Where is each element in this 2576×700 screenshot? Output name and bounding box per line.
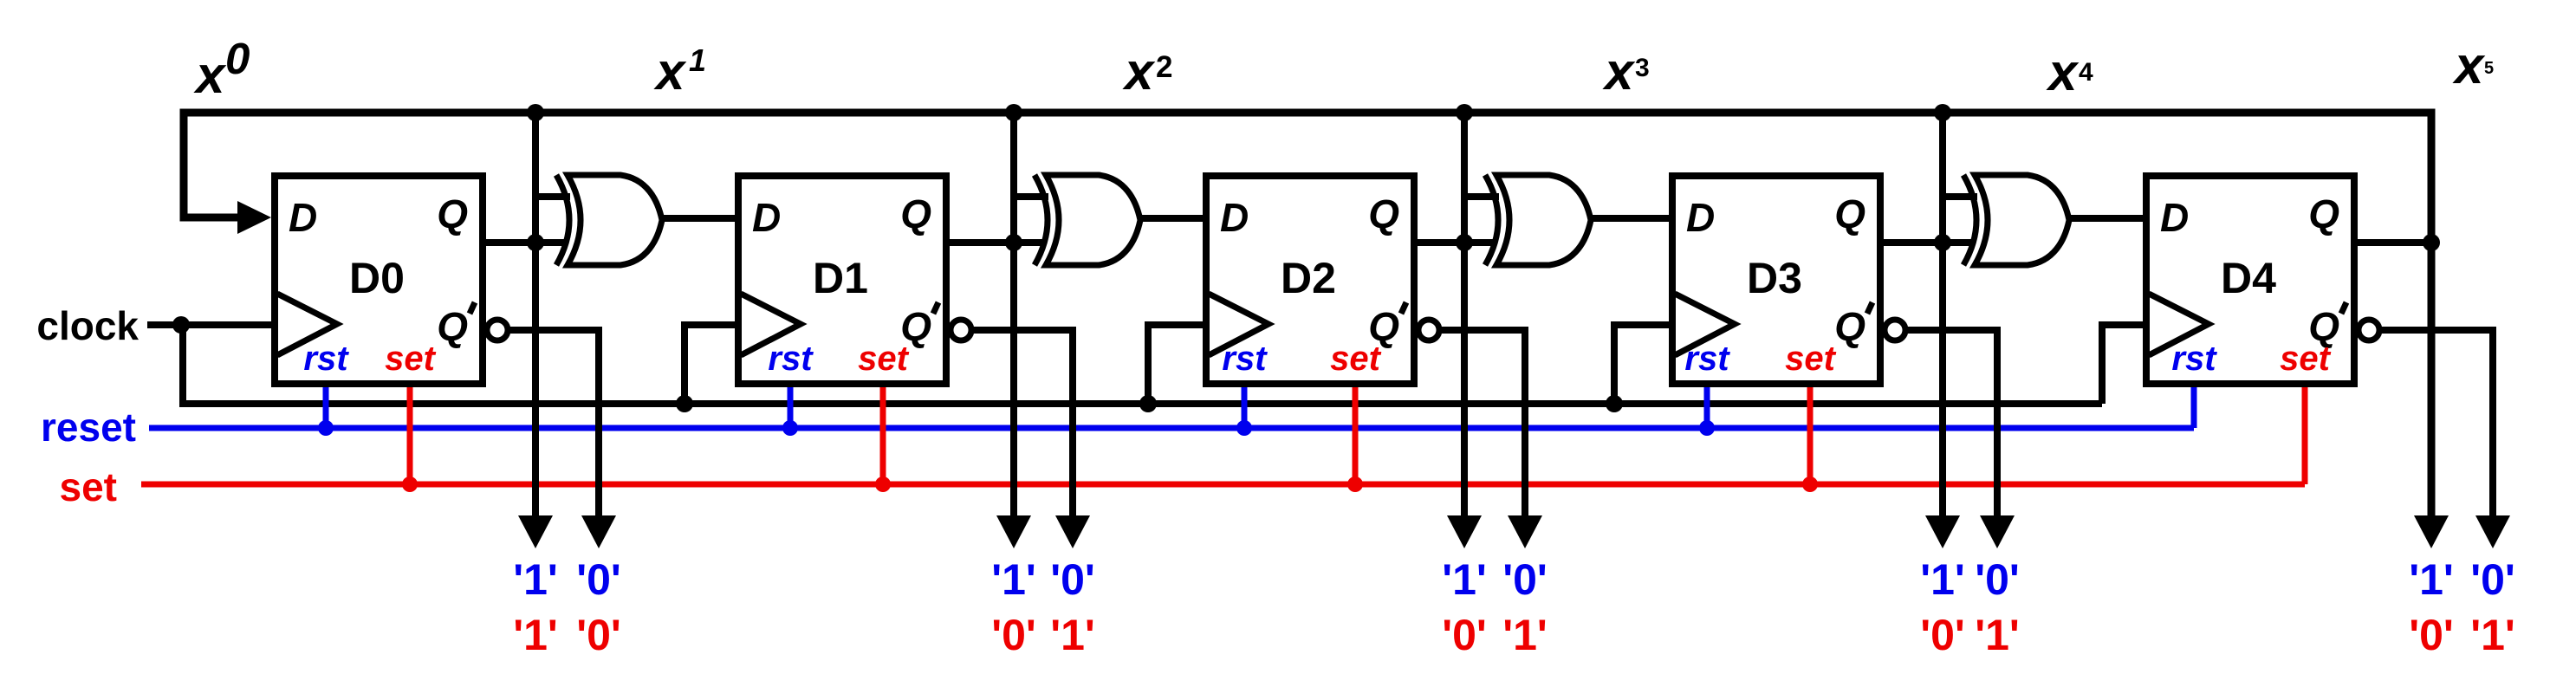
svg-text:Q: Q: [1834, 191, 1865, 237]
clock wedge D1: [741, 294, 801, 355]
node Qbar bubble D3: [1885, 320, 1905, 340]
svg-text:D: D: [1686, 195, 1715, 240]
svg-text:Q: Q: [1368, 191, 1399, 237]
svg-text:'0': '0': [1502, 555, 1548, 604]
junction x3 top: [1456, 104, 1473, 121]
node Qbar bubble D0: [487, 320, 508, 340]
wire xor U3 output to D of D3: [1591, 215, 1677, 222]
wire clock trunk down and along bottom: [183, 325, 2102, 404]
clock wedge D4: [2149, 294, 2209, 355]
svg-text:Q: Q: [437, 304, 468, 349]
wire x3 drop to output arrow: [1461, 113, 1468, 520]
flip-flop D0 box: [275, 176, 483, 384]
svg-text:reset: reset: [41, 405, 136, 450]
svg-text:D3: D3: [1747, 254, 1802, 302]
junction Q D1: [1005, 234, 1022, 251]
svg-text:D: D: [289, 195, 317, 240]
junction clock branch D1: [676, 395, 693, 412]
xor gate U3: [1496, 175, 1591, 265]
wire reset rail: [149, 425, 2194, 431]
node output arrow Q D0: [518, 515, 553, 548]
wire Qbar output D1: [972, 330, 1073, 520]
node output arrow Qbar D3: [1980, 515, 2015, 548]
wire clock to D0: [147, 321, 279, 328]
svg-text:Q: Q: [2308, 191, 2339, 237]
svg-text:'1': '1': [2470, 611, 2515, 659]
xor gate U1: [568, 175, 662, 265]
wire set drop D1: [880, 384, 886, 484]
wire set drop D4: [2302, 384, 2308, 484]
svg-text:D0: D0: [349, 254, 405, 302]
flip-flop D4 box: [2146, 176, 2354, 384]
svg-text:clock: clock: [36, 303, 139, 348]
svg-text:x: x: [653, 42, 687, 100]
svg-text:D: D: [752, 195, 781, 240]
svg-text:5: 5: [2484, 59, 2494, 78]
junction x4 top: [1934, 104, 1951, 121]
svg-text:D: D: [2160, 195, 2189, 240]
wire Qbar output D4: [2380, 330, 2493, 520]
svg-text:D: D: [1220, 195, 1249, 240]
wire Q output D2: [1414, 239, 1496, 246]
wire clock branch to D1: [685, 325, 743, 404]
wire Q output D3: [1880, 239, 1975, 246]
node Qbar bubble D1: [951, 320, 971, 340]
svg-text:x: x: [193, 46, 227, 104]
junction reset D3: [1699, 420, 1715, 436]
svg-text:D1: D1: [813, 254, 868, 302]
svg-text:x: x: [2046, 43, 2080, 101]
svg-text:'0': '0': [1050, 555, 1095, 604]
clock wedge D3: [1675, 294, 1735, 355]
junction Q D3: [1934, 234, 1951, 251]
svg-text:D4: D4: [2221, 254, 2276, 302]
svg-text:'1': '1': [1975, 611, 2020, 659]
wire xor U1 top input stub: [535, 193, 570, 200]
wire rst drop D1: [788, 384, 794, 428]
wire feedback path x0 top rail and x5 drop: [184, 113, 2431, 520]
svg-text:2: 2: [1156, 50, 1172, 84]
wire xor U4 output to D of D4: [2069, 215, 2151, 222]
svg-text:0: 0: [225, 34, 250, 83]
wire rst drop D2: [1242, 384, 1248, 428]
wire set drop D0: [407, 384, 413, 484]
svg-text:'1': '1': [1442, 555, 1487, 604]
wire clock branch to D2: [1148, 325, 1210, 404]
svg-text:'0': '0': [1920, 611, 1965, 659]
xor gate U2: [1046, 175, 1140, 265]
wire set rail: [141, 482, 2305, 488]
junction reset D1: [782, 420, 798, 436]
junction reset D0: [318, 420, 334, 436]
node Qbar bubble D2: [1418, 320, 1439, 340]
flip-flop D1 box: [738, 176, 946, 384]
node output arrow Q D1: [996, 515, 1031, 548]
svg-text:rst: rst: [768, 340, 814, 378]
junction x2 top: [1005, 104, 1022, 121]
svg-text:'1': '1': [991, 555, 1036, 604]
junction set D1: [875, 476, 891, 492]
wire Q output D1: [946, 239, 1046, 246]
svg-text:'0': '0': [2409, 611, 2454, 659]
wire xor U3 top input stub: [1464, 193, 1499, 200]
junction Q D2: [1456, 234, 1473, 251]
wire clock branch to D3: [1614, 325, 1677, 404]
node output arrow Qbar D2: [1508, 515, 1542, 548]
wire xor U4 top input stub: [1943, 193, 1977, 200]
svg-text:set: set: [1330, 340, 1381, 378]
svg-text:'1': '1': [1920, 555, 1965, 604]
wire xor U2 top input stub: [1014, 193, 1048, 200]
junction Q D4: [2423, 234, 2440, 251]
flip-flop D2 box: [1206, 176, 1414, 384]
node output arrow Qbar D4: [2475, 515, 2510, 548]
svg-text:set: set: [385, 340, 436, 378]
wire Q output D0: [483, 239, 568, 246]
clock wedge D0: [277, 294, 337, 355]
wire set drop D3: [1807, 384, 1814, 484]
wire Qbar output D3: [1906, 330, 1997, 520]
svg-text:x: x: [1122, 42, 1156, 100]
junction clock branch D2: [1139, 395, 1157, 412]
svg-text:x: x: [1602, 42, 1636, 100]
svg-text:'1': '1': [513, 611, 558, 659]
svg-text:4: 4: [2079, 58, 2093, 87]
junction set D0: [402, 476, 418, 492]
svg-text:'0': '0': [991, 611, 1036, 659]
svg-text:Q: Q: [437, 191, 468, 237]
junction reset D2: [1236, 420, 1252, 436]
node output arrow Qbar D1: [1055, 515, 1090, 548]
node output arrow Q D4: [2414, 515, 2449, 548]
junction Q D0: [527, 234, 544, 251]
svg-text:Q: Q: [1834, 304, 1865, 349]
wire rst drop D4: [2191, 384, 2197, 428]
xor gate U4: [1975, 175, 2069, 265]
clock wedge D2: [1209, 294, 1269, 355]
svg-text:'1': '1': [513, 555, 558, 604]
svg-text:'0': '0': [2470, 555, 2515, 604]
wire x2 drop to output arrow: [1010, 113, 1017, 520]
wire Qbar output D0: [509, 330, 599, 520]
svg-text:'0': '0': [1442, 611, 1487, 659]
svg-text:'0': '0': [576, 555, 621, 604]
node x0 arrowhead into D of D0: [237, 201, 271, 234]
node output arrow Q D2: [1447, 515, 1482, 548]
wire x4 drop to output arrow: [1939, 113, 1946, 520]
svg-text:'1': '1': [1050, 611, 1095, 659]
wire xor U1 output to D of D1: [662, 215, 743, 222]
wire Q output D4: [2354, 239, 2431, 246]
svg-text:'1': '1': [1502, 611, 1548, 659]
svg-text:set: set: [2280, 340, 2331, 378]
flip-flop D3 box: [1672, 176, 1880, 384]
wire rst drop D0: [323, 384, 329, 428]
junction clock branch D3: [1606, 395, 1623, 412]
wire x1 drop to output arrow: [532, 113, 539, 520]
wire xor U2 output to D of D2: [1140, 215, 1210, 222]
svg-text:'0': '0': [576, 611, 621, 659]
wire rst drop D3: [1704, 384, 1710, 428]
node Qbar bubble D4: [2359, 320, 2379, 340]
node output arrow Qbar D0: [581, 515, 616, 548]
junction clock at D0: [172, 316, 190, 334]
wire clock branch to D4: [2102, 325, 2151, 404]
wire Qbar output D2: [1440, 330, 1525, 520]
svg-text:rst: rst: [2171, 340, 2217, 378]
junction x1 top: [527, 104, 544, 121]
svg-text:set: set: [60, 464, 117, 509]
svg-text:'0': '0': [1975, 555, 2020, 604]
svg-text:3: 3: [1635, 54, 1650, 82]
svg-text:'1': '1': [2409, 555, 2454, 604]
wire set drop D2: [1353, 384, 1359, 484]
svg-text:set: set: [1785, 340, 1836, 378]
svg-text:Q: Q: [900, 191, 931, 237]
junction set D3: [1802, 476, 1818, 492]
svg-text:rst: rst: [303, 340, 349, 378]
svg-text:x: x: [2452, 36, 2486, 94]
junction set D2: [1347, 476, 1363, 492]
svg-text:set: set: [858, 340, 909, 378]
svg-text:1: 1: [689, 42, 706, 78]
svg-text:D2: D2: [1281, 254, 1336, 302]
node output arrow Q D3: [1925, 515, 1960, 548]
